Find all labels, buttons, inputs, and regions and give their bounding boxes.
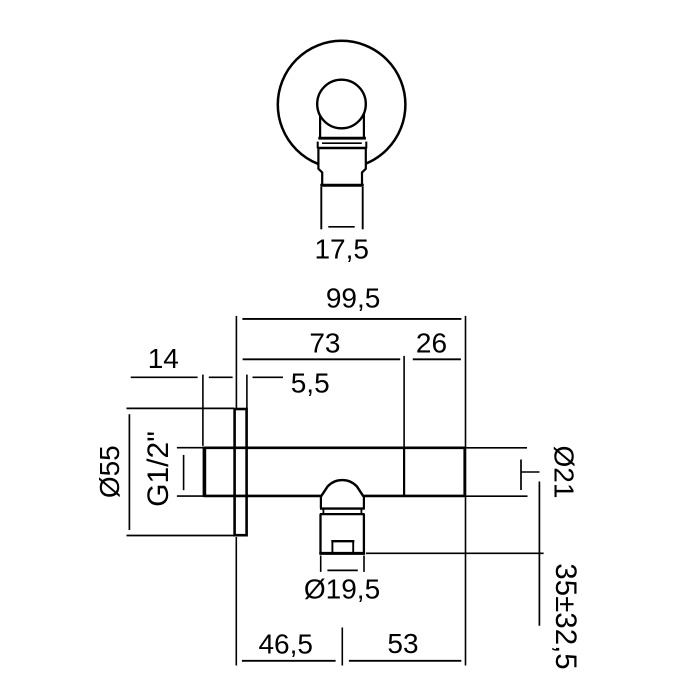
svg-text:G1/2": G1/2" (142, 431, 175, 507)
svg-text:Ø21: Ø21 (549, 446, 580, 499)
svg-text:Ø55: Ø55 (94, 445, 125, 498)
svg-text:14: 14 (148, 343, 179, 374)
svg-text:17,5: 17,5 (314, 234, 369, 265)
svg-text:99,5: 99,5 (326, 283, 381, 314)
svg-text:35±32,5: 35±32,5 (549, 563, 582, 669)
svg-text:26: 26 (416, 328, 447, 359)
svg-text:46,5: 46,5 (258, 628, 313, 659)
svg-text:73: 73 (309, 328, 340, 359)
svg-text:53: 53 (387, 628, 418, 659)
svg-text:Ø19,5: Ø19,5 (304, 574, 380, 605)
svg-text:5,5: 5,5 (291, 367, 330, 398)
